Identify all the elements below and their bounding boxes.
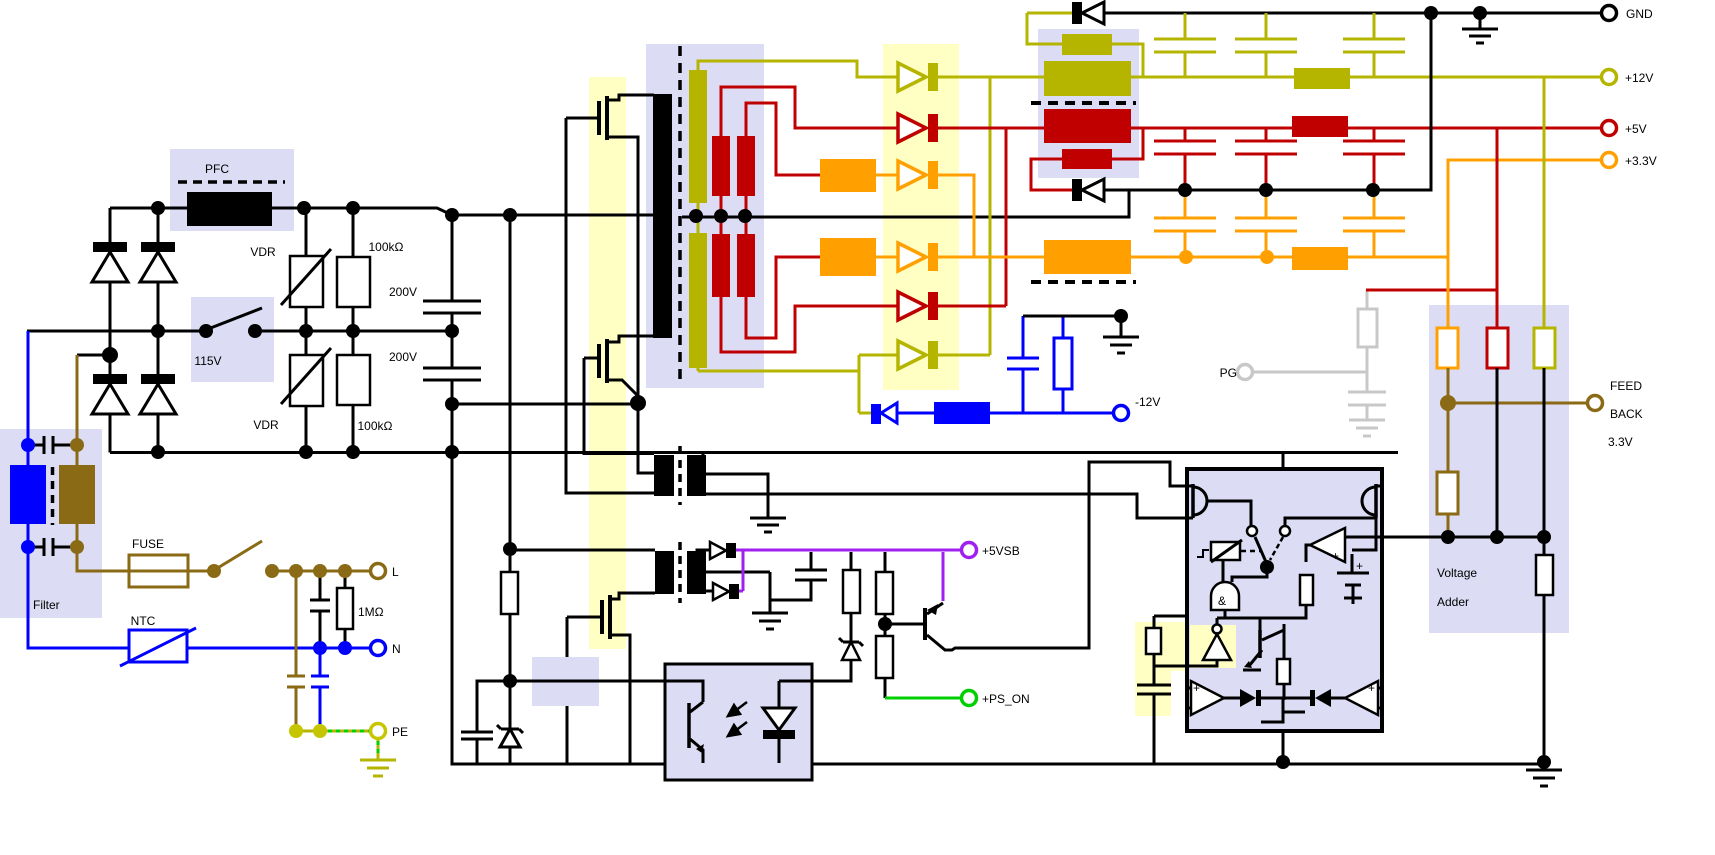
- resistor 3.3V series upper: [820, 159, 876, 192]
- svg-text:+5VSB: +5VSB: [982, 544, 1020, 558]
- inductor choke 5V aux winding: [1031, 128, 1143, 190]
- capacitor +3.3V C2: [1235, 190, 1297, 257]
- diode rectifier +5V lower: [898, 292, 938, 320]
- capacitor 5VSB: [770, 552, 827, 600]
- wire N down to NTC row: [28, 547, 129, 648]
- diode D2 bridge top-right: [140, 242, 176, 282]
- wire N rail: [187, 647, 371, 650]
- svg-text:Voltage: Voltage: [1437, 566, 1477, 580]
- svg-text:200V: 200V: [389, 350, 417, 364]
- wire half-bridge mid rail: [452, 403, 638, 406]
- svg-text:Filter: Filter: [33, 598, 60, 612]
- battery reference: [1337, 554, 1369, 604]
- inductor +12V series choke: [1294, 68, 1350, 89]
- svg-text:+12V: +12V: [1625, 71, 1653, 85]
- inverter: [1189, 625, 1231, 667]
- svg-text:115V: 115V: [194, 354, 221, 368]
- supervisor IC box: [1187, 469, 1382, 731]
- wire GND rail mid: [1104, 13, 1431, 190]
- transformer T2 drive primary: [654, 455, 674, 496]
- svg-text:Adder: Adder: [1437, 595, 1469, 609]
- terminal N: [371, 641, 386, 656]
- varistor VDR2: [281, 331, 331, 453]
- junction dots blue: [21, 438, 352, 655]
- wire gate drive lower: [584, 358, 654, 454]
- highlight band main MOSFETs: [589, 77, 626, 649]
- svg-text:&: &: [1218, 594, 1226, 608]
- inductor choke +12V main winding: [1044, 61, 1131, 96]
- inductor -12V choke: [897, 402, 1114, 424]
- wire PS_ON green: [885, 697, 962, 700]
- svg-text:VDR: VDR: [250, 245, 276, 259]
- inductor choke +5V main winding: [1044, 109, 1131, 143]
- terminal -12V: [1114, 406, 1129, 421]
- diode rectifier +12V lower: [859, 341, 938, 369]
- switch contact circles: [1247, 526, 1257, 536]
- svg-text:+PS_ON: +PS_ON: [982, 692, 1030, 706]
- terminal +3.3V: [1602, 153, 1617, 168]
- wire primary ground column: [452, 404, 1544, 764]
- wire HV top rail: [110, 208, 654, 215]
- transistor Q2 lower MOSFET: [584, 336, 654, 403]
- highlight box Filter: [0, 429, 102, 618]
- inductor +5V series choke: [1292, 116, 1348, 137]
- transformer T3 standby secondary: [687, 550, 770, 613]
- resistor adder 5V: [1487, 328, 1508, 368]
- svg-text:FEED: FEED: [1610, 379, 1642, 393]
- diode D 5VSB upper: [710, 542, 736, 559]
- wire Q4 emitter to supervisor: [945, 462, 1187, 650]
- relay latch symbol: [1197, 540, 1242, 562]
- capacitor +12V C3: [1343, 13, 1405, 77]
- capacitor X-cap top: [30, 436, 75, 454]
- terminal +5VSB: [962, 543, 977, 558]
- choke core dashed separator: [1031, 101, 1136, 105]
- wire bridge column 1: [109, 208, 112, 453]
- wire mid rail right: [255, 330, 452, 333]
- transformer T1 12V winding lower: [689, 216, 859, 371]
- wire +12V rail: [938, 76, 1602, 79]
- highlight box PFC: [170, 149, 294, 231]
- wire latch to gate: [1232, 567, 1267, 582]
- wire HV rail to MOSFET column: [509, 215, 512, 549]
- capacitor +5V C1: [1154, 128, 1216, 190]
- ground drive secondary: [750, 518, 786, 532]
- transistor supervisor right: [1285, 484, 1382, 550]
- resistor feedback brown: [1437, 472, 1458, 537]
- thermistor NTC: [120, 628, 196, 666]
- svg-text:FUSE: FUSE: [132, 537, 164, 551]
- wire supervisor top link: [1282, 452, 1285, 469]
- wire drive transformer centre lead: [638, 403, 654, 473]
- svg-text:PG: PG: [1220, 366, 1237, 380]
- wire -12V ground link: [1023, 315, 1121, 318]
- svg-text:1MΩ: 1MΩ: [358, 605, 384, 619]
- varistor VDR1: [281, 208, 331, 331]
- wire centre tap rail: [682, 190, 1129, 217]
- ground GND symbol top: [1462, 13, 1498, 43]
- resistor standby startup: [501, 572, 518, 614]
- inductor common-mode choke brown winding: [59, 465, 95, 524]
- transformer T3 standby primary: [655, 551, 674, 594]
- transistor supervisor mid: [1243, 618, 1284, 670]
- wire GND rail top: [1104, 12, 1602, 15]
- resistor PS_ON divider upper: [876, 552, 893, 636]
- resistor supervisor external: [1146, 616, 1187, 666]
- svg-text:-12V: -12V: [1135, 395, 1160, 409]
- highlight band rectifier diodes: [883, 44, 959, 390]
- capacitor supervisor timing: [1137, 666, 1171, 763]
- svg-text:L: L: [392, 565, 399, 579]
- transistor supervisor left: [1187, 484, 1251, 526]
- diode opto LED: [763, 681, 795, 763]
- wire choke leads: [27, 445, 30, 547]
- switch 115V blade: [208, 308, 262, 329]
- resistor PS_ON divider lower: [876, 636, 893, 698]
- wire gate drive upper: [566, 118, 654, 493]
- capacitor 200V C2: [423, 331, 481, 404]
- terminal +PS_ON: [962, 691, 977, 706]
- resistor supervisor mid: [1277, 624, 1290, 700]
- diode D1 bridge top-left: [92, 242, 128, 282]
- transformer T3 core dashed: [678, 542, 682, 603]
- transformer T2 core dashed: [678, 446, 682, 505]
- svg-text:100kΩ: 100kΩ: [369, 240, 404, 254]
- svg-text:+: +: [1332, 549, 1339, 563]
- wire comparator input from adder: [1345, 536, 1382, 539]
- switch wiper: [1241, 537, 1283, 562]
- wire gate output net: [1217, 605, 1306, 624]
- svg-text:+: +: [1368, 681, 1375, 695]
- resistor comparator load: [1300, 575, 1313, 605]
- svg-text:VDR: VDR: [253, 418, 279, 432]
- choke core dashed line: [51, 467, 55, 525]
- AND gate: [1211, 560, 1239, 618]
- transformer T1 primary winding: [653, 94, 672, 338]
- capacitor Y-cap blue: [311, 648, 329, 731]
- junction dots orange: [1179, 250, 1274, 264]
- diode D4 bridge bottom-right: [140, 374, 176, 414]
- diode zener opto reference: [812, 638, 863, 681]
- diode rectifier +12V upper: [898, 63, 938, 91]
- transformer T1 core dashed: [678, 46, 682, 379]
- capacitor +12V C2: [1235, 13, 1297, 77]
- junction dots black: [102, 6, 1551, 769]
- wire PG to 5V sense: [1366, 289, 1497, 292]
- junction dots brown: [70, 395, 1456, 578]
- capacitor startup: [461, 681, 510, 763]
- wire L rail: [272, 570, 371, 573]
- resistor adder 3.3V: [1437, 328, 1458, 368]
- highlight box main transformer: [646, 44, 764, 388]
- svg-text:BACK: BACK: [1610, 407, 1643, 421]
- wire L brown riser: [76, 355, 79, 445]
- capacitor -12V: [1007, 316, 1039, 413]
- capacitor +3.3V C3: [1343, 190, 1405, 257]
- capacitor PG: [1348, 372, 1386, 420]
- diode -12V rectifier: [859, 403, 897, 424]
- transistor Q4 PS_ON: [885, 552, 952, 650]
- terminal L: [371, 564, 386, 579]
- switch mains blade: [216, 541, 262, 569]
- wire mid rail left: [27, 330, 206, 333]
- PFC dashed line: [178, 180, 285, 184]
- wire +12V collector riser: [938, 77, 990, 355]
- wire LED feed: [779, 680, 812, 683]
- transformer T1 12V winding upper: [689, 61, 898, 216]
- resistor adder bottom: [1536, 537, 1553, 762]
- inductor +3.3V series choke: [1292, 247, 1348, 270]
- wire PE link: [296, 730, 371, 733]
- resistor -12V bleeder: [1054, 316, 1072, 413]
- highlight yellow supervisor RC: [1135, 622, 1236, 671]
- highlight box voltage adder: [1429, 305, 1569, 633]
- ground standby centre tap: [752, 613, 788, 629]
- fuse FUSE: [129, 555, 214, 587]
- capacitor Y-cap brown: [287, 571, 305, 731]
- svg-text:PE: PE: [392, 725, 408, 739]
- wire L jog to bridge: [77, 354, 110, 357]
- resistor 1M: [337, 571, 353, 648]
- highlight box 115V: [191, 297, 274, 382]
- terminal PG: [1238, 365, 1253, 380]
- terminal FEEDBACK: [1588, 396, 1603, 411]
- diode D 5VSB lower: [713, 583, 739, 600]
- terminal PE: [371, 724, 386, 739]
- wire standby HV feed: [510, 549, 655, 681]
- wire +5VSB rail: [736, 550, 962, 591]
- wire N blue riser: [27, 331, 30, 445]
- opto photon arrows: [728, 702, 747, 736]
- diode GND top clamp: [1027, 2, 1104, 44]
- terminal +5V: [1602, 121, 1617, 136]
- svg-text:N: N: [392, 642, 401, 656]
- wire crowbar net: [1261, 698, 1310, 712]
- capacitor +5V C3: [1343, 128, 1405, 190]
- wire +5V rail: [938, 127, 1602, 130]
- choke core dashed 3.3V: [1031, 280, 1136, 284]
- capacitor +12V C1: [1154, 13, 1216, 77]
- wire PWM gate lead: [566, 617, 569, 763]
- highlight box output chokes: [1038, 29, 1139, 178]
- wire +3.3V adder feed: [1447, 257, 1450, 328]
- capacitor 200V C1: [423, 215, 481, 331]
- resistor 5VSB zener feed: [843, 552, 860, 642]
- comparator bottom right: [1331, 681, 1382, 715]
- wire PG line: [1252, 347, 1367, 372]
- ground PE earth: [360, 739, 396, 776]
- diode zener startup clamp: [497, 681, 523, 763]
- wire L down to fuse row: [77, 547, 129, 571]
- IC ground pin symbol: [1261, 712, 1305, 722]
- resistor 100k R2: [337, 331, 370, 453]
- svg-text:3.3V: 3.3V: [1608, 435, 1633, 449]
- wire bridge column 2: [157, 208, 160, 453]
- capacitor across mains: [310, 571, 330, 648]
- svg-text:+: +: [1193, 681, 1200, 695]
- diode D3 bridge bottom-left: [92, 374, 128, 414]
- ground adder symbol: [1526, 762, 1562, 786]
- capacitor X-cap bottom: [30, 538, 75, 556]
- svg-text:200V: 200V: [389, 285, 417, 299]
- diode rectifier +3.3V lower: [898, 243, 938, 271]
- capacitor +5V C2: [1235, 128, 1297, 190]
- resistor adder 12V: [1534, 328, 1555, 368]
- wire +3.3V rail: [938, 160, 1602, 257]
- resistor PG divider: [1358, 290, 1377, 347]
- wire +5V collector riser: [938, 128, 1006, 306]
- wire PWM feed line: [510, 680, 665, 683]
- junction dots olive PE: [289, 724, 327, 738]
- diode rectifier +3.3V upper: [898, 161, 938, 189]
- svg-text:PFC: PFC: [205, 162, 229, 176]
- transformer T1 5V windings lower: [712, 216, 898, 352]
- svg-text:NTC: NTC: [131, 614, 156, 628]
- svg-text:+: +: [1356, 559, 1363, 573]
- yellow inverter highlight inside box: [1190, 625, 1236, 668]
- svg-text:100kΩ: 100kΩ: [358, 419, 393, 433]
- svg-text:GND: GND: [1626, 7, 1653, 21]
- resistor 100k R1: [337, 208, 370, 331]
- wire orange to diodes: [876, 175, 898, 257]
- diode GND lower clamp: [1072, 179, 1104, 201]
- diode crowbar left: [1240, 689, 1261, 707]
- terminal +12V: [1602, 70, 1617, 85]
- svg-text:+3.3V: +3.3V: [1625, 154, 1657, 168]
- wire +12V adder feed: [1543, 77, 1546, 328]
- ground PG symbol: [1349, 420, 1385, 436]
- inductor common-mode choke blue winding: [10, 465, 46, 524]
- wire olive -12V tap riser: [858, 355, 861, 413]
- diode rectifier +5V upper: [898, 114, 938, 142]
- transistor Q1 upper MOSFET: [566, 95, 654, 403]
- transformer T2 drive secondary: [687, 451, 1187, 518]
- resistor 3.3V series lower: [820, 238, 876, 276]
- transistor opto phototransistor: [665, 681, 704, 763]
- wire +5V adder feed: [1496, 128, 1499, 328]
- highlight box PWM controller: [532, 657, 599, 706]
- inductor PFC choke: [187, 192, 272, 226]
- terminal GND: [1602, 6, 1617, 21]
- ground -12V symbol: [1103, 316, 1139, 353]
- capacitor +3.3V C1: [1154, 190, 1216, 257]
- wire +3.3V collector riser: [938, 175, 974, 256]
- wire supervisor ground: [1282, 731, 1285, 762]
- wire adder sum line: [1382, 368, 1544, 537]
- svg-text:+5V: +5V: [1625, 122, 1647, 136]
- diode crowbar right: [1310, 689, 1331, 707]
- wire bridge bottom rail and primary return: [110, 451, 1398, 454]
- wire feedback node: [1448, 368, 1588, 472]
- comparator bottom left: [1187, 681, 1240, 715]
- inductor +3.3V main choke: [1044, 240, 1131, 274]
- transformer T1 5V windings upper: [712, 87, 898, 216]
- comparator supervisor: [1306, 528, 1345, 563]
- inductor choke 12V aux winding: [1062, 34, 1143, 77]
- transistor Q3 standby MOSFET: [567, 593, 655, 763]
- optocoupler box: [665, 664, 812, 780]
